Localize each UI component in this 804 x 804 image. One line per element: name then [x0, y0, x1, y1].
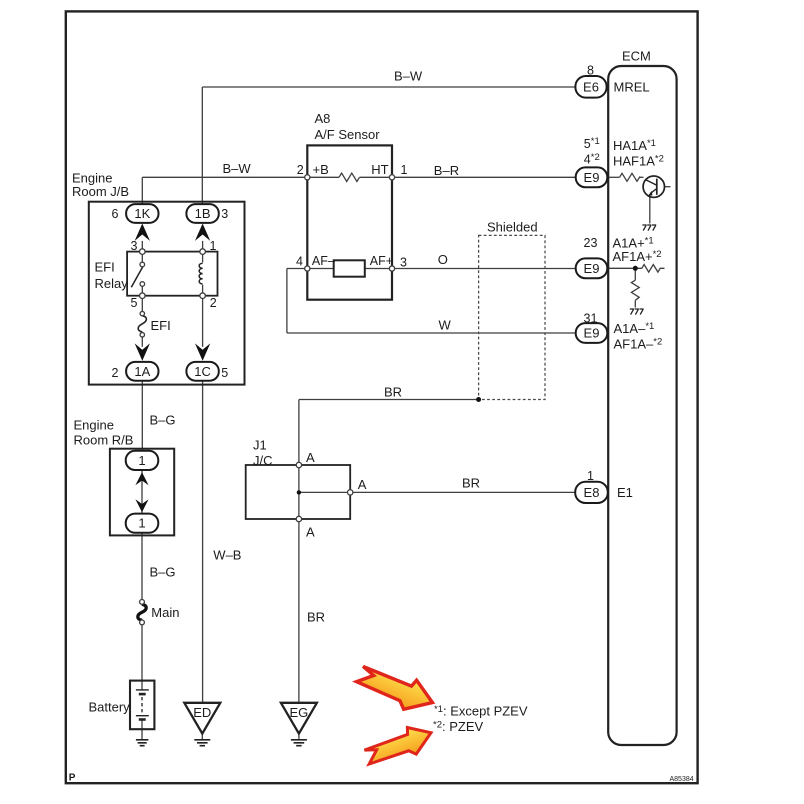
svg-text:1A: 1A [134, 364, 150, 379]
svg-text:ECM: ECM [622, 49, 651, 64]
svg-text:31: 31 [584, 312, 598, 326]
svg-text:Main: Main [151, 605, 179, 620]
svg-text:3: 3 [400, 256, 407, 270]
svg-text:EFI: EFI [95, 259, 115, 274]
svg-text:E1: E1 [617, 485, 633, 500]
svg-text:AF+: AF+ [370, 254, 393, 268]
svg-text:1: 1 [210, 239, 217, 253]
svg-text:1: 1 [138, 516, 145, 531]
svg-text:8: 8 [587, 64, 594, 78]
svg-text:1C: 1C [194, 364, 211, 379]
svg-text:B–W: B–W [394, 69, 423, 84]
svg-text:2: 2 [210, 296, 217, 310]
svg-text:1: 1 [401, 163, 408, 177]
svg-text:1: 1 [587, 469, 594, 483]
svg-text:E8: E8 [584, 485, 600, 500]
svg-text:Relay: Relay [95, 276, 129, 291]
svg-text:A: A [306, 450, 315, 465]
svg-text:A/F Sensor: A/F Sensor [315, 127, 381, 142]
svg-text:B–G: B–G [150, 565, 176, 580]
svg-text:*1: Except PZEV: *1: Except PZEV [434, 704, 528, 719]
svg-text:B–R: B–R [434, 163, 459, 178]
svg-text:W–B: W–B [213, 548, 241, 563]
svg-text:Room R/B: Room R/B [74, 433, 134, 448]
svg-text:O: O [438, 252, 448, 267]
svg-text:P: P [69, 773, 76, 784]
svg-text:J/C: J/C [253, 453, 273, 468]
svg-text:EG: EG [290, 705, 309, 720]
svg-text:Engine: Engine [74, 417, 114, 432]
svg-text:MREL: MREL [614, 80, 650, 95]
svg-text:1: 1 [138, 453, 145, 468]
svg-text:A8: A8 [315, 111, 331, 126]
svg-text:5: 5 [221, 366, 228, 380]
svg-text:23: 23 [584, 236, 598, 250]
svg-text:E9: E9 [584, 261, 600, 276]
svg-text:B–W: B–W [223, 161, 252, 176]
svg-text:BR: BR [384, 384, 402, 399]
svg-text:1B: 1B [195, 206, 211, 221]
svg-text:BR: BR [462, 476, 480, 491]
svg-text:1K: 1K [134, 206, 150, 221]
svg-text:E6: E6 [583, 79, 599, 94]
svg-text:6: 6 [112, 207, 119, 221]
svg-text:+B: +B [313, 162, 329, 177]
svg-text:BR: BR [307, 610, 325, 625]
svg-text:B–G: B–G [150, 412, 176, 427]
svg-text:A85384: A85384 [670, 776, 694, 783]
svg-text:5: 5 [131, 296, 138, 310]
svg-text:J1: J1 [253, 438, 267, 453]
svg-text:4: 4 [296, 255, 303, 269]
svg-text:3: 3 [221, 207, 228, 221]
svg-text:3: 3 [131, 239, 138, 253]
svg-text:AF–: AF– [312, 254, 335, 268]
svg-text:Shielded: Shielded [487, 220, 538, 235]
svg-text:A: A [306, 524, 315, 539]
svg-text:2: 2 [297, 163, 304, 177]
svg-text:HT: HT [371, 162, 388, 177]
svg-text:2: 2 [112, 366, 119, 380]
svg-text:Room J/B: Room J/B [72, 184, 129, 199]
svg-text:Battery: Battery [89, 700, 131, 715]
svg-text:E9: E9 [584, 326, 600, 341]
svg-text:ED: ED [193, 705, 211, 720]
svg-text:W: W [439, 317, 452, 332]
svg-text:EFI: EFI [151, 318, 171, 333]
svg-text:E9: E9 [584, 170, 600, 185]
svg-text:A: A [358, 477, 367, 492]
